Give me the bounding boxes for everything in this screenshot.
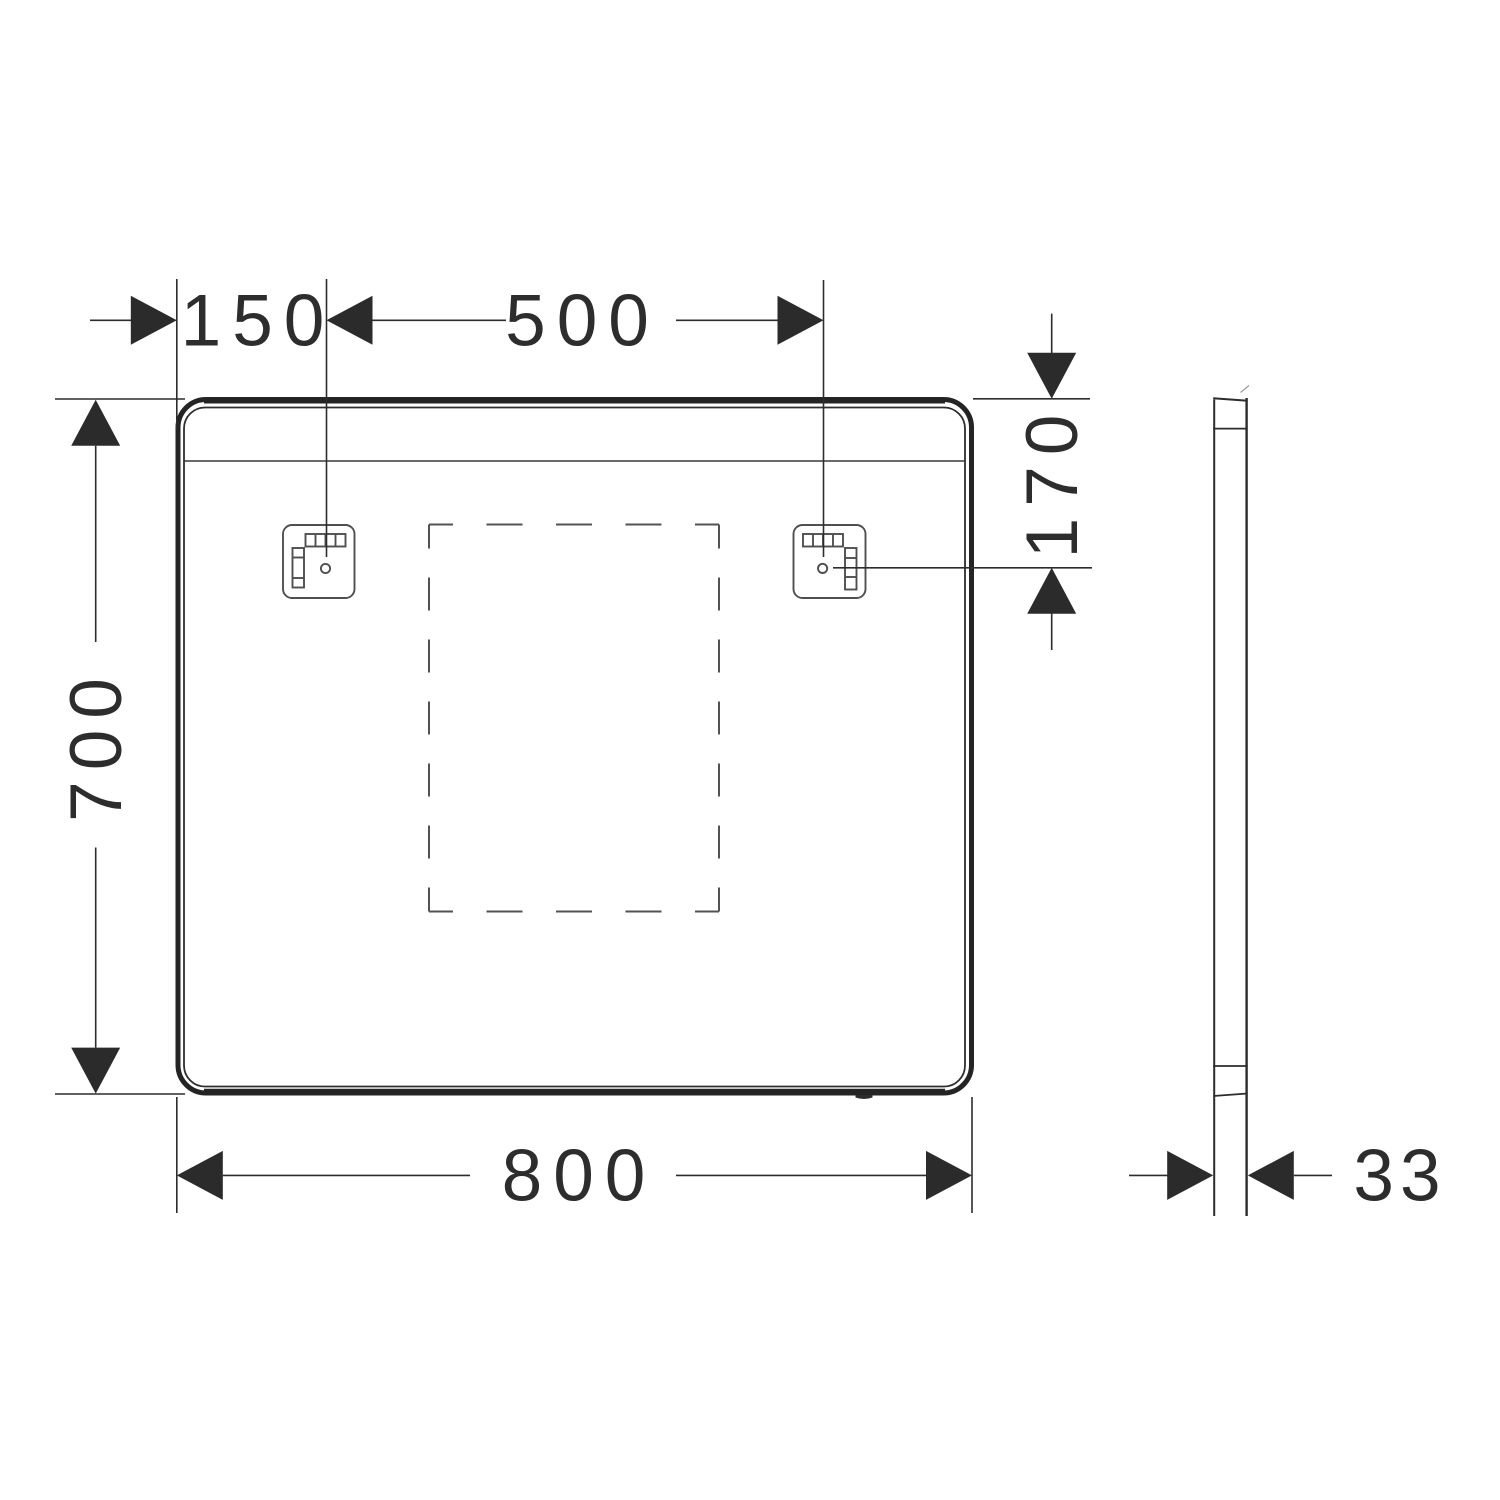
dimension 800: line segment b: [676, 1174, 926, 1176]
dimension 800: extension line right: [971, 1097, 973, 1213]
mirror outer outline (front view): [178, 400, 972, 1094]
heating pad dashed rectangle: [429, 525, 719, 912]
mirror top light strip line: [185, 460, 965, 462]
svg-text:500: 500: [505, 281, 660, 362]
dimension 170: top extension line: [973, 398, 1090, 400]
right mounting bracket icon: [794, 525, 866, 598]
dimension 800: arrow left: [177, 1151, 223, 1200]
mirror outline bottom edge thickening: [204, 1089, 945, 1091]
side view: top corner hairline: [1241, 386, 1250, 393]
dimension 700: arrow up: [71, 400, 120, 446]
dimension 33: leader line left: [1129, 1174, 1168, 1176]
dimension 33: leader line right: [1294, 1174, 1332, 1176]
svg-text:33: 33: [1353, 1136, 1446, 1217]
dimension 500: line segment b: [676, 319, 778, 321]
mirror outline top edge thickening: [204, 402, 945, 404]
dimension 170: upper vertical line: [1051, 314, 1053, 354]
dimension 800: arrow right: [926, 1151, 972, 1200]
dimension 170: lower extension line: [833, 567, 1092, 569]
svg-text:170: 170: [1012, 404, 1093, 559]
dimension 33: arrow left: [1248, 1151, 1294, 1200]
dimension 700: line segment b: [95, 848, 97, 1048]
side view: top slanted edge: [1213, 398, 1247, 401]
cable outlet bump bottom edge: [856, 1095, 873, 1099]
dimension 800: extension line left: [176, 1097, 178, 1213]
dimension 33: arrow right: [1167, 1151, 1213, 1200]
dimension 800: line segment a: [223, 1174, 470, 1176]
dimension 700: extension line top: [55, 398, 185, 400]
left mounting bracket icon: [283, 525, 355, 598]
side view: rail top line: [1213, 1065, 1247, 1067]
dimension 150: arrow right: [131, 296, 177, 345]
svg-text:800: 800: [502, 1136, 657, 1217]
dimension 150/500: extension line bracket 2: [823, 280, 825, 557]
side view: top cap line: [1213, 428, 1247, 430]
dimension 170: arrow up: [1027, 568, 1076, 614]
dimension 500: arrow right: [778, 296, 824, 345]
dimension 500: line segment a: [373, 319, 507, 321]
dimension 700: line segment a: [95, 446, 97, 642]
dimension 150/500: extension line left edge: [176, 279, 178, 430]
dimension 700: extension line bottom: [55, 1093, 185, 1095]
dimension 150: leader line: [90, 319, 132, 321]
mirror inner contour: [184, 408, 965, 1087]
svg-text:700: 700: [56, 667, 137, 822]
svg-text:150: 150: [181, 281, 336, 362]
side view: rail bottom slanted line: [1213, 1094, 1247, 1097]
dimension 170: arrow down: [1027, 353, 1076, 399]
dimension 700: arrow down: [71, 1048, 120, 1094]
side view: right edge: [1245, 398, 1247, 1216]
dimension 170: lower vertical line: [1051, 613, 1053, 650]
dimension 150/500: extension line bracket 1: [326, 279, 328, 557]
side view: left edge: [1213, 400, 1215, 1217]
dimension 500: arrow left: [327, 296, 373, 345]
